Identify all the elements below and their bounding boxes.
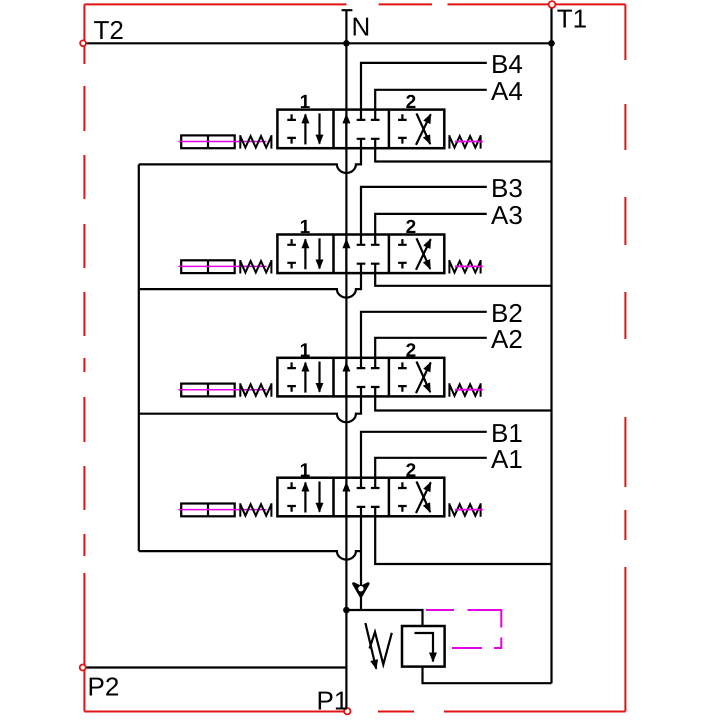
junction node N-T — [343, 40, 350, 47]
relief valve RV1 body — [402, 626, 445, 667]
junction node T1 header — [548, 40, 555, 47]
wire tank return of section 2 — [375, 396, 551, 411]
wire neutral centre line N down to pump junction — [345, 43, 347, 610]
wire parallel feed branch 2 with crossover hop — [139, 396, 361, 423]
svg-text:T1: T1 — [557, 4, 587, 34]
svg-text:A1: A1 — [491, 444, 523, 474]
port T2 — [80, 40, 86, 46]
check valve CV1 — [354, 584, 368, 597]
wire work port A3 — [375, 214, 487, 235]
svg-text:B3: B3 — [491, 173, 523, 203]
wire pump riser P1 — [345, 610, 347, 711]
valve section V2 (4/3 directional spool) — [179, 340, 483, 396]
wire work port A1 — [375, 458, 487, 478]
magenta pilot line of relief valve — [426, 610, 501, 648]
valve section V1 (4/3 directional spool) — [179, 460, 483, 516]
port T1 — [549, 1, 556, 8]
wire parallel feed branch 4 with crossover hop — [139, 148, 361, 173]
svg-text:N: N — [352, 12, 371, 42]
wire tank return T1 vertical — [550, 7, 552, 683]
port P1 — [344, 708, 350, 714]
wire neutral carryover N riser top with end bar — [342, 10, 353, 43]
wire work port B4 — [361, 63, 487, 110]
svg-text:P1: P1 — [317, 686, 349, 716]
wire work port B1 — [361, 432, 487, 478]
relief valve flow arrow — [415, 633, 434, 662]
relief valve adjustable spring — [370, 632, 392, 665]
valve section V4 (4/3 directional spool) — [179, 92, 483, 148]
valve section V3 (4/3 directional spool) — [179, 217, 483, 273]
svg-text:T2: T2 — [94, 15, 124, 45]
wire inlet P2 line — [86, 666, 347, 668]
wire relief outlet to tank — [423, 667, 552, 684]
port P2 — [80, 665, 86, 671]
wire tank header T2-T1 — [86, 42, 552, 44]
red dashed enclosure border — [84, 4, 625, 711]
svg-text:B4: B4 — [491, 49, 523, 79]
wire work port A2 — [375, 338, 487, 358]
wire tank return of section 4 — [375, 148, 551, 161]
wire work port A4 — [375, 90, 487, 110]
relief valve adjustment arrow — [365, 623, 376, 669]
junction node pump gallery — [343, 607, 350, 614]
svg-text:P2: P2 — [88, 672, 120, 702]
wire tank return of section 3 — [375, 273, 551, 286]
wire parallel feed branch 1 with crossover hop — [139, 551, 361, 560]
wire parallel feed rail left — [138, 164, 140, 551]
wire work port B3 — [361, 187, 487, 235]
wire parallel feed branch 3 with crossover hop — [139, 273, 361, 298]
svg-text:A3: A3 — [491, 200, 523, 230]
wire pump feed with check riser — [360, 516, 362, 610]
wire relief feed branch — [346, 610, 422, 626]
svg-text:A2: A2 — [491, 324, 523, 354]
svg-text:A4: A4 — [491, 76, 523, 106]
wire tank return of section 1 — [375, 516, 551, 564]
wire work port B2 — [361, 312, 487, 358]
